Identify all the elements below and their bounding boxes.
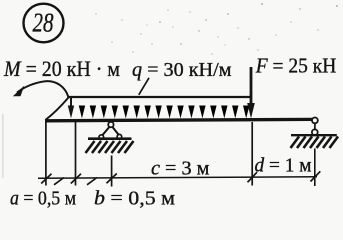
q label leader line: [139, 78, 149, 95]
pin support A: top hinge circle: [108, 122, 113, 127]
moment arrow tail diagonal: [45, 98, 68, 121]
svg-text:b = 0,5 м: b = 0,5 м: [94, 188, 175, 210]
problem number badge circle 28: [24, 4, 64, 43]
roller support ground hatching: [291, 137, 339, 149]
pin support left base circle: [99, 135, 104, 140]
pin support ground hatching: [86, 141, 134, 153]
svg-text:c = 3 м: c = 3 м: [151, 158, 210, 180]
svg-text:q = 30 кН/м: q = 30 кН/м: [132, 59, 232, 81]
dimension extension line under force F: [251, 122, 253, 186]
pin support ground line: [88, 137, 132, 140]
dimension extension line at beam left end: [45, 122, 47, 186]
moment arrowhead: [13, 86, 24, 97]
scan speckles: [95, 3, 338, 55]
roller support roller circle: [312, 129, 318, 135]
svg-text:F = 25 кН: F = 25 кН: [255, 54, 336, 78]
distributed load q top line: [68, 96, 251, 98]
svg-text:28: 28: [33, 8, 54, 38]
distributed load arrows (17): [68, 97, 74, 118]
dimension tick slashes: [41, 171, 320, 185]
roller support link: [314, 123, 316, 129]
moment arrow arc: [17, 81, 69, 97]
svg-text:M = 20 кН · м: M = 20 кН · м: [3, 56, 120, 81]
scanner edge smudge: [2, 114, 4, 178]
dimension extension line under roller: [314, 149, 316, 187]
force F arrow shaft: [250, 67, 253, 105]
dimension extension line between a and b: [75, 122, 77, 186]
pin support left leg: [102, 127, 109, 136]
svg-text:a = 0,5 м: a = 0,5 м: [10, 188, 76, 210]
force F arrowhead: [247, 103, 255, 118]
roller support ground line: [291, 134, 337, 136]
roller support B: top hinge circle: [312, 118, 318, 124]
dimension extension line under pin support: [111, 156, 113, 187]
svg-text:d = 1 м: d = 1 м: [255, 155, 312, 177]
pin support right base circle: [117, 134, 122, 139]
dimension line: [38, 177, 317, 178]
pin support right leg: [112, 127, 118, 135]
beam: [45, 118, 313, 123]
